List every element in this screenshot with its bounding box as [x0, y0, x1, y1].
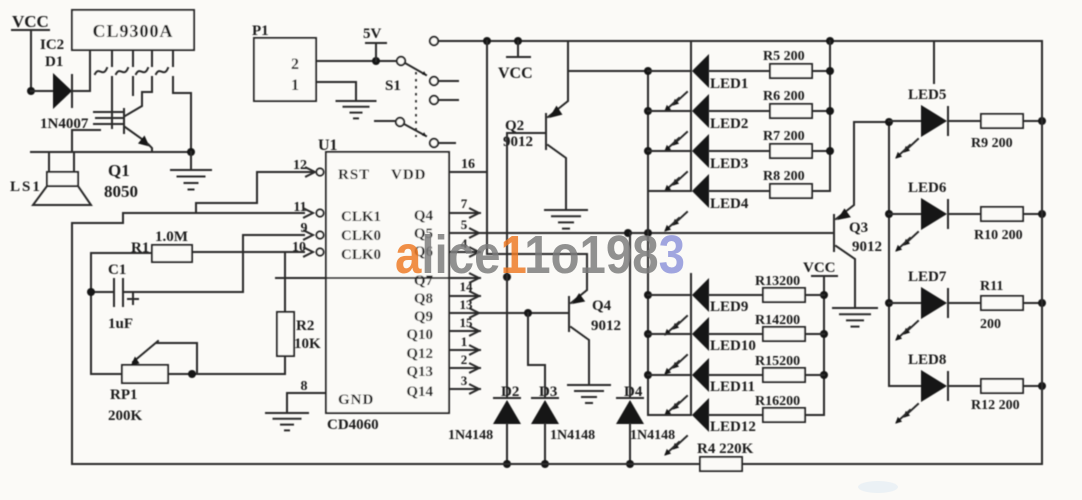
IC U1 CD4060 — [326, 152, 449, 413]
svg-text:VCC: VCC — [803, 260, 836, 276]
svg-text:R10 200: R10 200 — [974, 228, 1023, 243]
svg-text:CL9300A: CL9300A — [92, 21, 173, 41]
svg-text:R5 200: R5 200 — [763, 49, 805, 64]
svg-text:Q9: Q9 — [414, 309, 433, 325]
svg-text:Q3: Q3 — [849, 220, 868, 236]
LED LED12 — [648, 414, 691, 416]
wire: Q5 output to Q3 base (long) — [462, 232, 832, 234]
wire: right-most rail — [1041, 41, 1043, 464]
wire: LED bank1 right rail — [829, 41, 831, 191]
svg-text:C1: C1 — [108, 262, 126, 278]
wire: R1 left leg — [91, 253, 152, 374]
resistor R12 200 — [948, 385, 981, 387]
node J (C1 left) — [87, 288, 95, 296]
svg-text:D2: D2 — [501, 384, 519, 400]
svg-text:9012: 9012 — [591, 318, 621, 334]
svg-text:LED10: LED10 — [710, 338, 756, 354]
resistor R6 200 — [709, 110, 770, 112]
svg-text:VCC: VCC — [498, 65, 533, 82]
LED LED10 — [648, 333, 691, 335]
svg-text:1: 1 — [461, 334, 468, 349]
svg-text:1uF: 1uF — [108, 316, 133, 332]
svg-text:2: 2 — [291, 56, 299, 73]
ground (Q2 collector) — [545, 209, 587, 211]
svg-text:200: 200 — [980, 317, 1001, 332]
LED LED7 — [889, 302, 921, 304]
svg-text:Q12: Q12 — [406, 346, 433, 362]
wire: LED bank3 left rail — [888, 122, 890, 386]
svg-text:1N4148: 1N4148 — [630, 428, 675, 443]
ground (Q4 collector) — [568, 384, 610, 386]
svg-text:LED8: LED8 — [908, 352, 946, 368]
svg-text:CLK0: CLK0 — [341, 228, 381, 244]
svg-text:RST: RST — [338, 167, 370, 183]
svg-text:R15200: R15200 — [755, 354, 800, 369]
svg-text:Q4: Q4 — [414, 208, 434, 224]
svg-text:LED3: LED3 — [710, 156, 748, 172]
node E — [514, 37, 522, 45]
speaker LS1 — [47, 172, 78, 186]
svg-text:VDD: VDD — [391, 167, 427, 183]
svg-text:R11: R11 — [980, 279, 1003, 294]
scan artifact (faint blue smudge) — [858, 481, 898, 493]
svg-text:CLK0: CLK0 — [341, 247, 381, 263]
wire: R2 bottom to RP1 — [284, 356, 286, 374]
svg-text:D3: D3 — [539, 384, 557, 400]
wire: Q7 output to Q2-base/D2 line — [276, 277, 472, 279]
svg-text:LED1: LED1 — [710, 76, 748, 92]
resistor R5 200 — [709, 70, 770, 72]
svg-text:Q2: Q2 — [505, 118, 524, 134]
resistor R13 200 — [709, 294, 763, 296]
svg-text:S1: S1 — [385, 78, 401, 94]
svg-text:2: 2 — [461, 352, 468, 367]
svg-text:D1: D1 — [45, 54, 63, 70]
LED LED2 — [648, 110, 691, 112]
svg-text:GND: GND — [338, 392, 374, 408]
transistor Q3 9012 (PNP) — [833, 215, 835, 251]
wire: VDD feed drop (to U1 pin16 and Q4 emitter) — [487, 41, 587, 254]
svg-text:LED6: LED6 — [908, 180, 947, 196]
svg-text:1N4148: 1N4148 — [448, 428, 493, 443]
LED LED11 — [648, 374, 691, 376]
connector P1 — [254, 38, 316, 101]
wire: R1 right to CLK0 pin10 — [192, 251, 304, 253]
resistor R4 220K — [700, 457, 742, 471]
LED LED1 — [648, 70, 691, 72]
svg-text:LS1: LS1 — [10, 179, 42, 195]
svg-text:16: 16 — [461, 157, 475, 172]
svg-text:7: 7 — [461, 196, 468, 211]
svg-text:Q8: Q8 — [414, 291, 433, 307]
svg-text:VCC: VCC — [12, 12, 49, 31]
svg-text:10K: 10K — [294, 336, 321, 352]
node H (LED rail crossing) — [644, 229, 652, 237]
LED LED6 — [889, 213, 921, 215]
dotted gang link of S1 — [415, 72, 417, 137]
svg-text:P1: P1 — [252, 23, 269, 39]
svg-text:LED5: LED5 — [908, 87, 946, 103]
wire: CLK1 pin11 zigzag to bottom rail — [72, 213, 304, 464]
svg-text:1N4148: 1N4148 — [550, 428, 595, 443]
transistor Q1 8050 (NPN) — [123, 109, 125, 133]
diode D3 1N4148 — [532, 397, 558, 399]
svg-text:9012: 9012 — [852, 239, 882, 255]
wire: LED bank rail (left) — [647, 71, 649, 415]
svg-text:D4: D4 — [624, 384, 643, 400]
svg-text:LED11: LED11 — [710, 379, 755, 395]
wire: R2 top to pin10 line — [284, 252, 286, 312]
node D — [483, 37, 491, 45]
node K (RP1 wiper tie) — [188, 370, 196, 378]
wire: Q2 base drop to D2 — [506, 133, 508, 398]
resistor R1 1.0M — [152, 245, 192, 262]
resistor R8 200 — [709, 190, 770, 192]
svg-text:8050: 8050 — [104, 182, 138, 201]
svg-text:LED12: LED12 — [710, 419, 756, 435]
wire: RP1 terminals — [91, 373, 122, 375]
wire: D3 link to Q4 base node — [528, 313, 545, 398]
power 5V — [375, 43, 377, 61]
svg-text:CD4060: CD4060 — [327, 417, 379, 433]
svg-text:R12 200: R12 200 — [971, 398, 1020, 413]
svg-text:200K: 200K — [108, 408, 143, 424]
resistor R16 200 — [709, 414, 763, 416]
node F — [826, 37, 834, 45]
resistor R7 200 — [709, 150, 770, 152]
svg-text:IC2: IC2 — [40, 37, 64, 53]
resistor R9 200 — [948, 120, 981, 122]
power VCC (middle, inverted tap) — [517, 41, 519, 57]
wire: bottom rail — [72, 463, 700, 465]
wire: CL9300A pin leads — [89, 50, 91, 91]
svg-text:Q10: Q10 — [406, 327, 433, 343]
capacitor C1 1uF — [91, 291, 114, 293]
svg-text:R9 200: R9 200 — [971, 136, 1013, 151]
wire: top supply rail — [438, 40, 1042, 42]
svg-text:Q4: Q4 — [592, 298, 612, 314]
wire: LED cathode column 1 — [690, 41, 692, 191]
svg-text:R2: R2 — [296, 318, 314, 334]
svg-text:LED4: LED4 — [710, 196, 749, 212]
svg-text:R4 220K: R4 220K — [697, 441, 754, 457]
resistor R14 200 — [709, 333, 763, 335]
resistor R2 10K (vertical) — [277, 312, 294, 356]
potentiometer RP1 200K — [122, 365, 168, 383]
svg-text:LED9: LED9 — [710, 299, 748, 315]
LED LED3 — [648, 150, 691, 152]
svg-text:Q14: Q14 — [406, 384, 433, 400]
svg-text:8: 8 — [301, 379, 308, 394]
svg-text:LED2: LED2 — [710, 116, 748, 132]
svg-text:9: 9 — [301, 221, 308, 236]
wire: Q1 emitter / speaker net — [31, 151, 191, 153]
diode D1 1N4007 — [31, 90, 53, 92]
svg-text:1.0M: 1.0M — [155, 229, 188, 245]
node I (D3 branch) — [524, 309, 532, 317]
wire: P1 pin2 to 5V/S1 — [316, 60, 397, 62]
wire: LED cathode column 2 — [690, 274, 692, 415]
svg-text:R14200: R14200 — [755, 313, 800, 328]
node G (D4 tap) — [624, 229, 632, 237]
resistor R11 200 — [948, 302, 981, 304]
svg-text:R16200: R16200 — [755, 394, 800, 409]
svg-text:R7 200: R7 200 — [763, 129, 805, 144]
wire: P1 pin1 to ground — [316, 81, 356, 83]
svg-text:R13200: R13200 — [755, 274, 800, 289]
wire: D4 link to Q3 base line — [629, 233, 631, 398]
diode D4 1N4148 — [617, 397, 643, 399]
S1 second pole — [375, 120, 396, 122]
svg-text:U1: U1 — [318, 137, 338, 154]
wire: Q9 output to Q4 base — [472, 312, 567, 314]
wire: emitter rail tap to LED bank 1 — [568, 70, 648, 72]
node B (Q1 emitter/ground junction) — [187, 148, 195, 156]
chip internal links (blurred squiggles in scan) — [95, 68, 107, 74]
switch S1 — [397, 57, 405, 65]
resistor R15 200 — [709, 374, 763, 376]
LED LED5 — [889, 120, 921, 122]
IC U2 CL9300A (music chip) — [72, 10, 194, 50]
svg-text:R6 200: R6 200 — [763, 89, 805, 104]
node A (VCC/D1 junction) — [27, 87, 35, 95]
LED LED9 — [648, 294, 691, 296]
svg-text:5V: 5V — [363, 26, 382, 42]
ground (Q3 collector) — [833, 307, 877, 309]
wire: stub above LED5 — [933, 41, 935, 83]
svg-text:Q13: Q13 — [406, 364, 433, 380]
svg-text:1: 1 — [291, 77, 299, 94]
ground (U1 pin8) — [266, 412, 308, 414]
svg-text:alice11o1983: alice11o1983 — [395, 225, 685, 285]
transistor Q2 9012 (PNP) — [545, 114, 547, 149]
svg-text:Q1: Q1 — [108, 161, 130, 180]
svg-text:LED7: LED7 — [908, 269, 947, 285]
ground (near Q1) — [190, 152, 192, 170]
LED LED4 — [648, 190, 691, 192]
resistor R10 200 — [948, 213, 981, 215]
LED LED8 — [889, 385, 921, 387]
node C (5V junction) — [372, 57, 380, 65]
ground (P1) — [337, 100, 376, 102]
transistor Q4 9012 (PNP) — [568, 297, 570, 331]
svg-text:RP1: RP1 — [110, 387, 138, 403]
svg-text:3: 3 — [461, 373, 468, 388]
svg-text:12: 12 — [293, 158, 307, 173]
svg-text:R8 200: R8 200 — [763, 169, 805, 184]
wire: RST pin12 zigzag — [196, 172, 312, 213]
diode D2 1N4148 — [494, 397, 520, 399]
svg-text:CLK1: CLK1 — [341, 209, 381, 225]
wire: C1 right to CLK0 pin9 — [243, 235, 304, 292]
